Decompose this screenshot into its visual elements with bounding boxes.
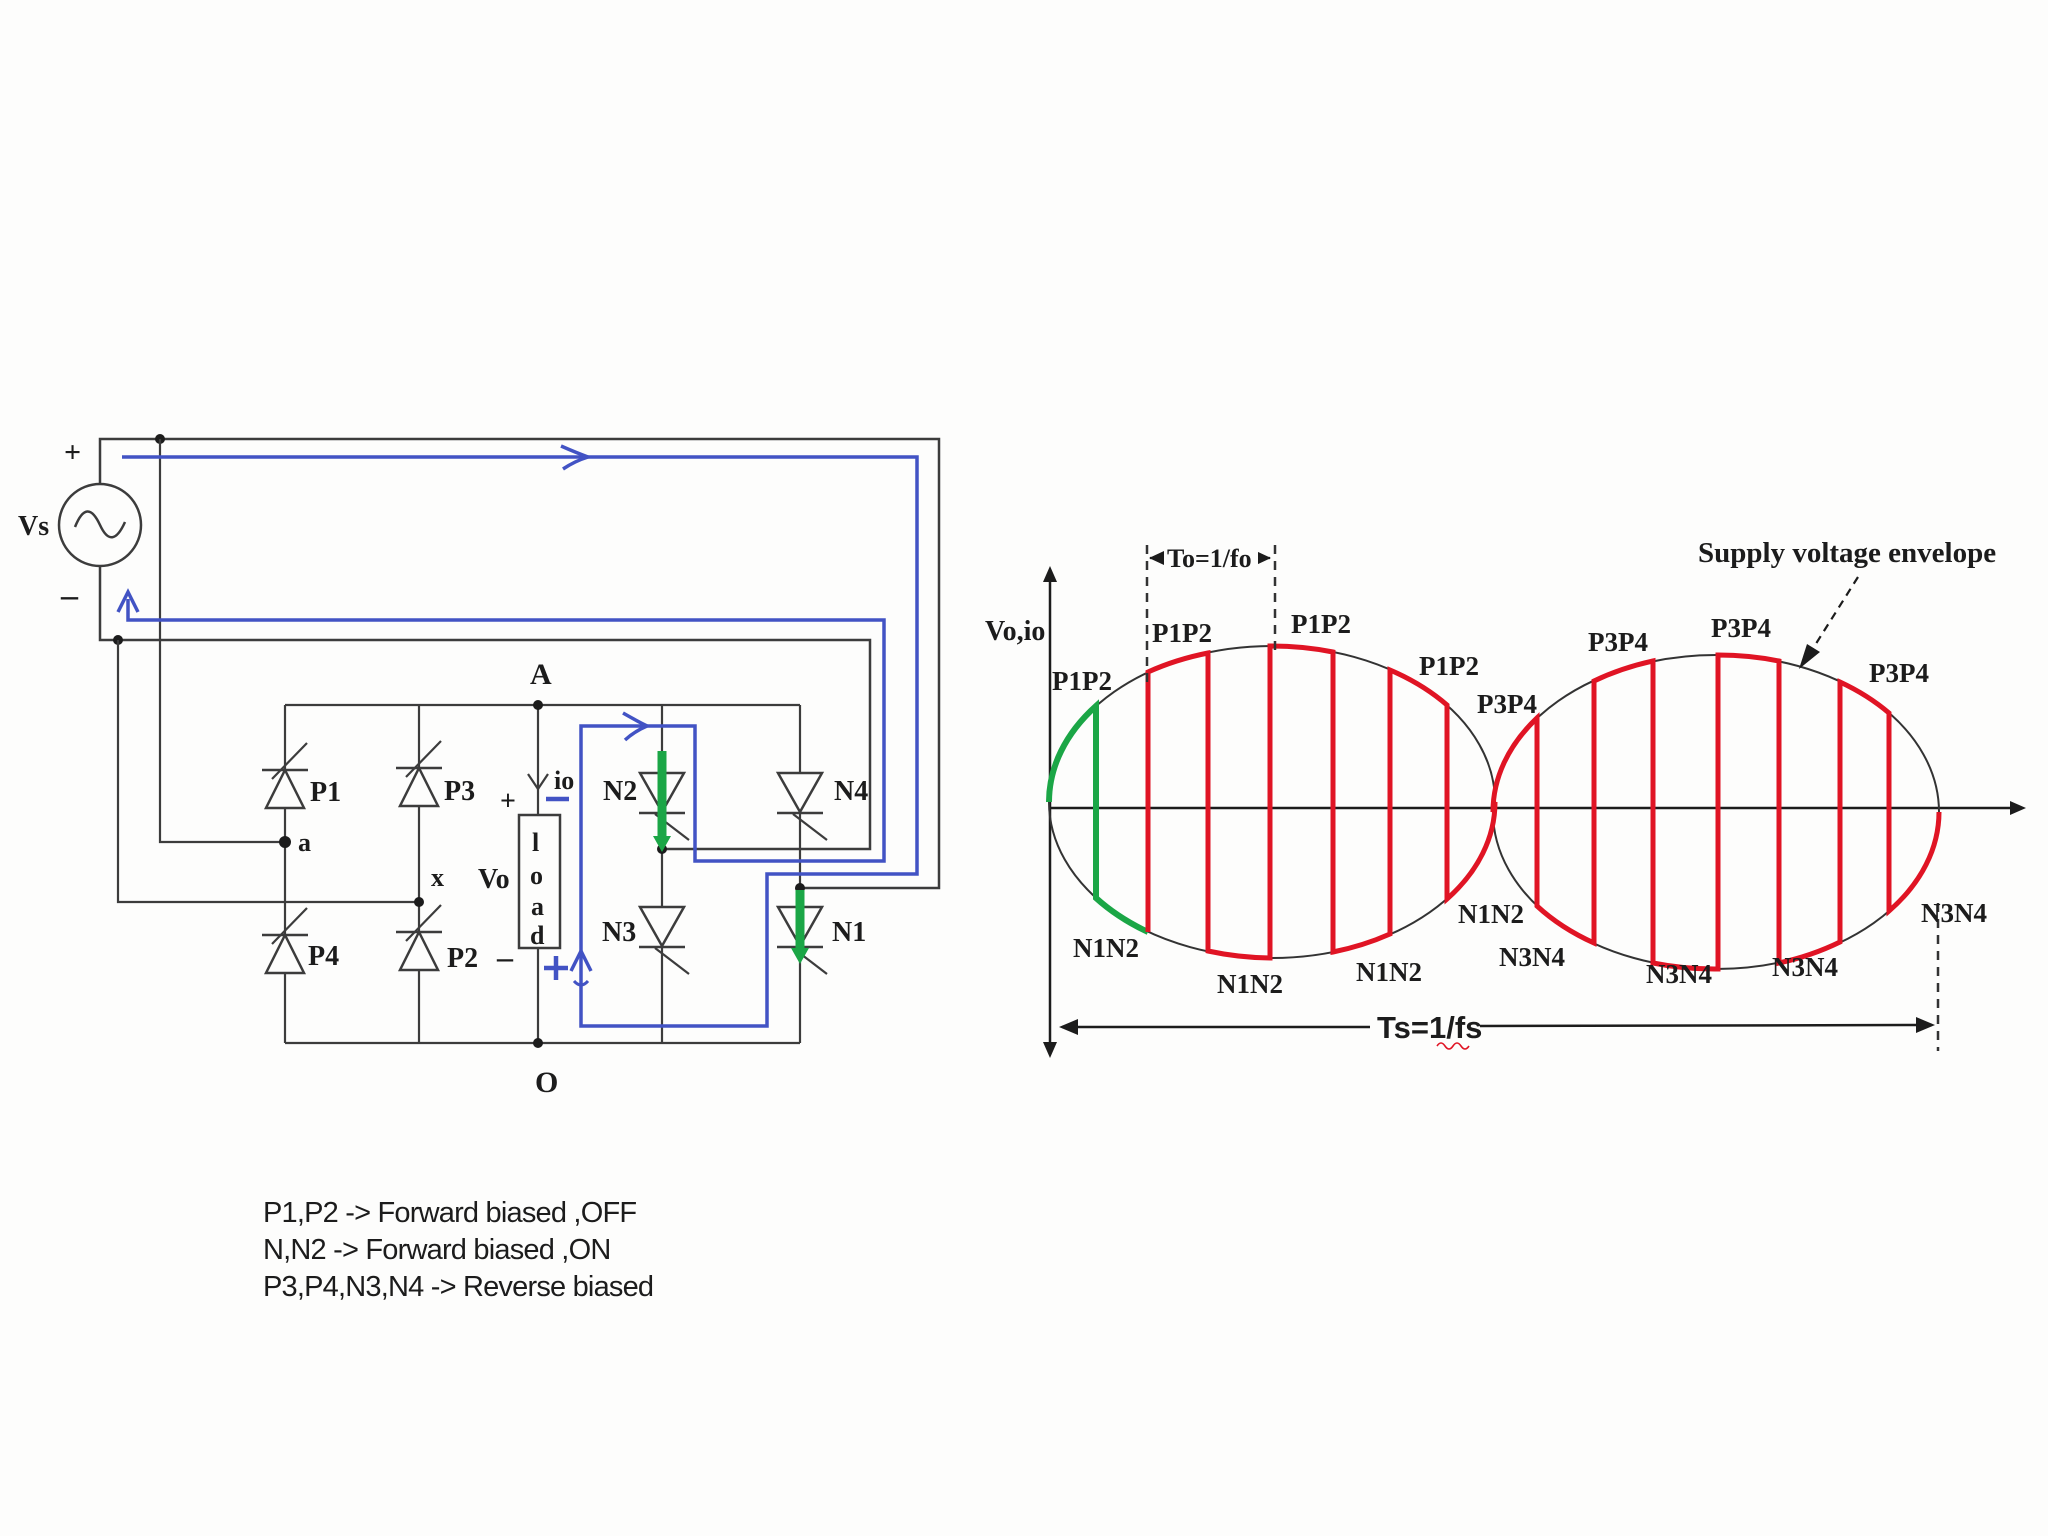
dashed pointer arrow: [1812, 577, 1858, 650]
wire: load column: [537, 705, 539, 1043]
svg-text:o: o: [530, 861, 543, 890]
wire: bottom bus O: [285, 1042, 800, 1044]
source Vs: [18, 436, 141, 614]
node x: [414, 897, 424, 907]
svg-text:N3N4: N3N4: [1921, 898, 1987, 928]
waveform: horizontal axis: [1050, 807, 2016, 810]
dashed marker Ts right: [1937, 903, 1940, 1051]
dashed marker To right: [1274, 545, 1277, 656]
wire: N4-N1 column: [799, 705, 801, 1043]
svg-text:P4: P4: [308, 941, 339, 972]
svg-text:P1P2: P1P2: [1152, 618, 1212, 648]
svg-text:P1: P1: [310, 777, 341, 808]
svg-text:+: +: [64, 436, 81, 469]
waveform: vertical axis Vo,io: [1049, 575, 1052, 1049]
wire: P1-P4 column: [284, 705, 286, 1043]
blue arrowhead toward N2: [623, 713, 647, 740]
thyristor P1: [262, 743, 341, 808]
svg-text:–: –: [496, 939, 514, 975]
wire: source bottom loop to N2-N3 junction: [100, 566, 870, 849]
svg-text:a: a: [298, 828, 311, 857]
svg-text:P1,P2 -> Forward biased ,OFF: P1,P2 -> Forward biased ,OFF: [263, 1197, 636, 1229]
svg-text:a: a: [531, 892, 544, 921]
svg-text:To=1/fo: To=1/fo: [1167, 544, 1252, 573]
svg-text:P3P4: P3P4: [1477, 689, 1537, 719]
svg-text:io: io: [554, 766, 574, 795]
svg-text:P3P4: P3P4: [1711, 613, 1771, 643]
supply voltage envelope right ellipse: [1493, 655, 1939, 969]
svg-text:P2: P2: [447, 943, 478, 974]
bottom description text: [263, 1197, 653, 1303]
wire: junction to node a: [160, 439, 285, 842]
svg-text:+: +: [500, 786, 516, 817]
green conduction highlight N1: [791, 890, 809, 964]
wire: P3-P2 column: [418, 705, 420, 1043]
svg-text:N3: N3: [602, 917, 636, 948]
green conduction highlight N2: [653, 751, 671, 852]
thyristor P4: [262, 908, 339, 973]
wire: source top loop to N1: [100, 439, 939, 888]
svg-text:Vo: Vo: [478, 864, 510, 895]
svg-text:O: O: [535, 1066, 558, 1099]
node: bottom wire junction: [113, 635, 123, 645]
svg-text:P3P4: P3P4: [1588, 627, 1648, 657]
svg-text:Vs: Vs: [18, 511, 49, 542]
thyristor N2: [603, 773, 689, 840]
svg-text:N3N4: N3N4: [1646, 959, 1712, 989]
svg-text:d: d: [530, 921, 545, 950]
blue arrowhead near source minus: [118, 592, 138, 612]
svg-text:P1P2: P1P2: [1419, 651, 1479, 681]
svg-text:N1N2: N1N2: [1217, 969, 1283, 999]
svg-text:N3N4: N3N4: [1499, 942, 1565, 972]
blue arrowhead on top wire: [561, 446, 588, 469]
Ts=1/fs arrow and label: [1059, 1010, 1935, 1049]
thyristor N3: [602, 907, 689, 974]
load: [519, 815, 560, 950]
svg-text:P1P2: P1P2: [1291, 609, 1351, 639]
wire: N2-N3 column: [661, 705, 663, 1043]
svg-text:P1P2: P1P2: [1052, 666, 1112, 696]
svg-text:N1: N1: [832, 917, 866, 948]
svg-text:x: x: [431, 863, 444, 892]
svg-text:–: –: [60, 577, 79, 614]
svg-text:N4: N4: [834, 776, 868, 807]
svg-text:N,N2 -> Forward biased ,ON: N,N2 -> Forward biased ,ON: [263, 1234, 610, 1266]
node a: [279, 836, 291, 848]
svg-text:Ts=1/fs: Ts=1/fs: [1377, 1010, 1482, 1045]
svg-text:N1N2: N1N2: [1458, 899, 1524, 929]
io arrow on load column: [528, 774, 548, 789]
svg-text:Vo,io: Vo,io: [985, 616, 1045, 647]
node: N1 top junction: [795, 883, 805, 893]
svg-text:N3N4: N3N4: [1772, 952, 1838, 982]
blue minus at load top: [546, 797, 569, 802]
wire: top bus A: [285, 704, 800, 706]
blue plus at load bottom: [544, 956, 568, 980]
red output voltage segments: [1148, 646, 1939, 969]
svg-text:P3P4: P3P4: [1869, 658, 1929, 688]
wire: blue current path annotation: [122, 457, 917, 1026]
green output segment P1P2/N1N2 start: [1049, 706, 1148, 932]
svg-text:l: l: [532, 828, 539, 857]
wire: junction to node x: [118, 640, 419, 902]
svg-text:Supply voltage envelope: Supply voltage envelope: [1698, 537, 1996, 569]
dashed marker To left: [1146, 545, 1149, 688]
thyristor P3: [396, 741, 475, 807]
node A: [533, 700, 543, 710]
svg-text:A: A: [530, 658, 552, 691]
svg-text:P3: P3: [444, 776, 475, 807]
blue arrowhead on load return: [571, 951, 591, 971]
thyristor P2: [396, 905, 478, 974]
node O: [533, 1038, 543, 1048]
svg-text:N2: N2: [603, 776, 637, 807]
node: top wire junction: [155, 434, 165, 444]
thyristor N4: [777, 773, 868, 840]
To=1/fo arrow and label: [1149, 542, 1271, 573]
thyristor N1: [777, 907, 866, 974]
node: N2-N3 junction: [657, 844, 667, 854]
svg-text:P3,P4,N3,N4 -> Reverse biased: P3,P4,N3,N4 -> Reverse biased: [263, 1271, 653, 1303]
svg-text:N1N2: N1N2: [1073, 933, 1139, 963]
svg-text:N1N2: N1N2: [1356, 957, 1422, 987]
supply voltage envelope left ellipse: [1049, 646, 1495, 958]
